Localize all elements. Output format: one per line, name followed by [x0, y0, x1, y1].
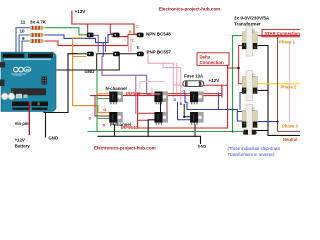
transformer T3 (9-0V/230V/5A): [242, 105, 258, 135]
wire black col2 source: [148, 120, 154, 137]
wire red col2 mid drop: [166, 96, 168, 113]
wire black PNP1 emitter to gnd trunk: [44, 54, 87, 113]
svg-text:11: 11: [21, 20, 26, 25]
wire green stub M1: [97, 98, 109, 100]
svg-text:S1: S1: [251, 107, 255, 111]
wire red M5 drain link: [138, 113, 155, 120]
wire lead pin10: [19, 35, 29, 53]
wire red collector bus: [72, 24, 137, 34]
svg-text:Vin pin: Vin pin: [15, 121, 29, 126]
svg-text:C: C: [132, 38, 135, 43]
svg-text:Electronics-project-hub.com: Electronics-project-hub.com: [94, 145, 156, 150]
wire red drain bus: [91, 85, 222, 95]
MOSFET M1 IRF540: [109, 92, 123, 105]
transistor Q2 NPN BC548: [113, 33, 120, 38]
svg-text:UNO: UNO: [24, 68, 31, 72]
wire red fuse to trunk: [204, 84, 228, 86]
svg-text:NPN BC548: NPN BC548: [146, 31, 171, 36]
svg-text:N-channel: N-channel: [106, 86, 127, 91]
transformer T1 (9-0V/230V/5A): [242, 26, 258, 56]
wire black T1 secondary to neutral trunk: [256, 46, 300, 136]
wire orange PNP1 stub: [73, 56, 86, 58]
wire red fuse drop: [221, 85, 223, 97]
wire blue Phase 3: [257, 121, 279, 123]
resistor R1: [30, 26, 44, 30]
svg-text:C: C: [136, 24, 139, 29]
wire +12V red riser: [71, 11, 73, 24]
svg-text:GND: GND: [85, 69, 95, 74]
wire black bottom bus: [98, 125, 201, 144]
wire purple M2 gate: [135, 75, 137, 113]
svg-text:Neutral: Neutral: [283, 137, 297, 142]
Delta Connection box: [197, 53, 229, 66]
wire black M2-M5 link: [160, 102, 162, 112]
transistor Q4 PNP BC557: [87, 52, 94, 57]
svg-text:S1: S1: [251, 73, 255, 77]
svg-text:Transformers in reverse): Transformers in reverse): [228, 152, 275, 157]
wire red bottom bus: [138, 65, 228, 128]
MOSFET M2 IRF540: [154, 92, 168, 105]
wire green bottom bus: [88, 132, 244, 135]
transformer T2 (9-0V/230V/5A): [242, 71, 258, 101]
wire pink fuse left box: [140, 82, 164, 89]
wire pink to M3 gate: [163, 63, 181, 104]
wire black PNP3 tap: [119, 54, 137, 70]
svg-text:Fuse 10A: Fuse 10A: [184, 74, 203, 79]
svg-text:GND: GND: [198, 145, 207, 149]
junction dot phase3: [277, 121, 279, 123]
svg-text:S: S: [180, 101, 183, 106]
svg-text:+12V: +12V: [75, 9, 87, 14]
svg-text:GND: GND: [48, 135, 58, 140]
fuse F1: [183, 81, 204, 87]
wire black gnd stub: [45, 113, 47, 138]
svg-text:PNP BC557: PNP BC557: [147, 50, 172, 55]
svg-text:S: S: [103, 122, 106, 127]
junction dot M6: [183, 116, 185, 118]
wire purple PNP2 to M5 gate: [102, 56, 154, 94]
svg-text:S1: S1: [251, 29, 255, 33]
wire green mid trunk: [96, 70, 98, 132]
svg-text:Delta: Delta: [200, 54, 211, 59]
MOSFET M6 IRF9540: [190, 112, 204, 125]
wire red delta trunk to T link: [228, 67, 239, 69]
svg-text:Connection: Connection: [200, 60, 224, 65]
svg-text:+12V: +12V: [209, 78, 221, 83]
transistor Q3 NPN BC548: [137, 33, 144, 38]
wire red drop to Q1: [87, 24, 89, 33]
wire red fuse feed upper: [138, 93, 222, 95]
wire purple Q1 to gate trunk: [94, 35, 99, 51]
wire lead pin9: [22, 41, 29, 53]
junction dot: [237, 67, 239, 69]
svg-text:D: D: [89, 116, 92, 121]
wire pink vertical: [289, 44, 291, 122]
wire violet drop: [105, 37, 107, 51]
svg-text:+12V: +12V: [15, 138, 25, 143]
wire red R3 to Q3 base: [45, 34, 137, 45]
wire black T2 secondary: [256, 89, 268, 91]
wire black gnd bus (transistors): [57, 69, 119, 71]
wire yellow Phase 2: [257, 83, 301, 85]
svg-text:3x 4.7K: 3x 4.7K: [30, 19, 47, 24]
resistor R2: [30, 33, 44, 37]
wire black PNP2 tap: [97, 54, 113, 70]
svg-text:(Three individual step-down: (Three individual step-down: [228, 146, 281, 151]
MOSFET M3 IRF540: [190, 92, 204, 105]
svg-text:Phase 3: Phase 3: [282, 124, 299, 129]
wire black T3 secondary: [256, 130, 268, 132]
wire lead pin11: [16, 28, 29, 53]
wire orange stub M1 gate: [97, 93, 109, 95]
wire pink PNP3 drop: [127, 39, 129, 51]
wire blue drop Q2: [102, 43, 104, 57]
MOSFET M4 IRF9540: [109, 112, 123, 125]
MOSFET M5 IRF9540: [154, 112, 168, 125]
wire green gate stub: [97, 117, 109, 119]
wire black M3-M6 totem: [184, 105, 190, 117]
svg-text:G: G: [103, 107, 106, 112]
junction dot green trunk x blue: [232, 109, 234, 111]
wire green star trunk: [233, 36, 245, 132]
wire green R1 to Q1 base: [45, 28, 87, 35]
wire pink under fuse: [152, 88, 160, 94]
wire orange Q1 emitter trunk: [73, 38, 110, 112]
svg-text:3x 9-0V/230V/5A: 3x 9-0V/230V/5A: [234, 16, 270, 21]
resistor R3: [30, 39, 44, 43]
svg-text:B: B: [129, 29, 132, 34]
wire pink PNP3 drop 2: [130, 39, 132, 51]
wire blue T2 bottom: [240, 93, 243, 110]
wire red Phase 1: [257, 35, 301, 37]
svg-text:Electronics-project-hub.com: Electronics-project-hub.com: [159, 7, 221, 12]
wire red drop to Q2: [110, 24, 113, 33]
svg-text:Phase 2: Phase 2: [281, 85, 298, 90]
svg-text:E: E: [137, 45, 140, 50]
transistor Q6 PNP BC557: [137, 52, 144, 57]
wire red col1 drop: [95, 96, 109, 116]
wire red Vin battery: [28, 105, 30, 134]
transistor Q1 NPN BC548: [87, 33, 94, 38]
transistor Q5 PNP BC557: [113, 52, 120, 57]
wire pink ladder: [148, 52, 183, 97]
wire blue col3 to transformer T3: [185, 93, 244, 121]
svg-text:Battery: Battery: [15, 144, 31, 149]
wire red T1-T2 link: [239, 46, 243, 84]
svg-text:10: 10: [20, 29, 26, 34]
Arduino Uno board: [0, 52, 56, 111]
wire blue R2 to Q2 base: [45, 35, 113, 43]
STAR Connection box: [262, 29, 302, 36]
junction dot green trunk x bus: [232, 131, 234, 133]
svg-text:D: D: [174, 97, 177, 102]
wire black M6 source drop: [194, 125, 196, 137]
wire blue M6 gate: [178, 102, 191, 120]
wire maroon vertical: [278, 38, 301, 131]
svg-text:Phase 1: Phase 1: [279, 39, 296, 44]
wire blue drop right: [217, 93, 219, 109]
svg-text:IRF9540: IRF9540: [121, 125, 138, 130]
wire green PNP1 stub: [78, 53, 87, 55]
